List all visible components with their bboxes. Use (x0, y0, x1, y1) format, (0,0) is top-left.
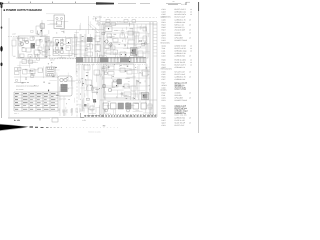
svg-text:R113: R113 (162, 64, 166, 67)
svg-text:UPC1185H: UPC1185H (175, 37, 184, 40)
svg-text:CARBON 4.7K: CARBON 4.7K (175, 19, 187, 22)
svg-text:C105: C105 (162, 13, 166, 16)
svg-text:CARBON 10K: CARBON 10K (175, 21, 187, 24)
svg-text:S101: S101 (162, 105, 166, 108)
svg-text:25: 25 (189, 55, 191, 58)
svg-text:METAL 0.22: METAL 0.22 (175, 24, 184, 27)
svg-text:R123: R123 (162, 110, 166, 113)
svg-text:SP OUT: SP OUT (62, 111, 67, 113)
svg-text:10: 10 (190, 47, 192, 50)
svg-text:Q107: Q107 (162, 122, 166, 125)
svg-text:FUSE 3A 125: FUSE 3A 125 (175, 119, 185, 122)
svg-text:D105: D105 (162, 71, 166, 74)
svg-text:Q101: Q101 (162, 32, 166, 35)
svg-text:R-CH: R-CH (117, 21, 121, 24)
svg-text:SLIDE SW 2P: SLIDE SW 2P (175, 61, 186, 64)
svg-text:F101: F101 (162, 94, 166, 97)
svg-text:MYLAR 0.047: MYLAR 0.047 (175, 71, 186, 74)
svg-text:R117: R117 (162, 82, 166, 85)
svg-text:2SC1815 (Y): 2SC1815 (Y) (175, 26, 185, 29)
svg-text:C121: C121 (162, 97, 166, 100)
svg-text:DC RANGE: DC RANGE (16, 89, 24, 91)
svg-text:25: 25 (189, 117, 191, 120)
svg-text:FUSE 3A 125V: FUSE 3A 125V (175, 59, 187, 62)
svg-text:25: 25 (189, 32, 191, 35)
svg-text:L=5V: L=5V (82, 119, 87, 122)
svg-text:R103: R103 (162, 24, 166, 27)
svg-text:C115: C115 (162, 73, 166, 76)
svg-text:10: 10 (190, 61, 192, 64)
svg-text:25: 25 (189, 92, 191, 95)
svg-text:R115: R115 (162, 76, 166, 79)
svg-text:MYLAR 0.047u: MYLAR 0.047u (175, 13, 187, 16)
svg-text:25: 25 (189, 76, 191, 79)
svg-text:CERAMIC 0.01: CERAMIC 0.01 (175, 10, 187, 13)
svg-text:C101: C101 (162, 124, 166, 127)
svg-text:10: 10 (190, 59, 192, 62)
svg-text:ELECT 100uF: ELECT 100uF (175, 73, 186, 76)
svg-text:CARBON 4.7K: CARBON 4.7K (175, 76, 187, 79)
svg-text:ELECT 100uF: ELECT 100uF (175, 15, 186, 18)
svg-text:CARBON 10K: CARBON 10K (175, 78, 187, 81)
svg-text:L-CH: L-CH (12, 33, 17, 36)
svg-text:CHOKE 3.3mH: CHOKE 3.3mH (175, 45, 187, 48)
svg-text:C117: C117 (162, 78, 166, 81)
svg-text:R109: R109 (162, 59, 166, 62)
svg-text:RD5.6EB: RD5.6EB (175, 94, 183, 97)
svg-text:CARBON 560: CARBON 560 (175, 55, 186, 58)
svg-text:C119: C119 (162, 87, 166, 90)
svg-text:25: 25 (189, 71, 191, 74)
svg-text:R111: R111 (162, 61, 166, 64)
svg-text:D103: D103 (162, 39, 166, 42)
svg-text:ELECT 47uF 5: ELECT 47uF 5 (175, 8, 186, 11)
svg-text:CERAMIC 100p: CERAMIC 100p (175, 50, 187, 53)
svg-text:1S1555: 1S1555 (175, 92, 181, 95)
svg-text:R121: R121 (162, 99, 166, 102)
svg-text:D107: D107 (162, 119, 166, 122)
svg-text:PRINTED IN JAPAN: PRINTED IN JAPAN (88, 132, 101, 134)
svg-text:CERAMIC 0.0: CERAMIC 0.0 (175, 66, 186, 69)
svg-text:IC101: IC101 (162, 45, 167, 48)
svg-text:ELECT 47uF 5: ELECT 47uF 5 (175, 64, 186, 67)
svg-text:ELECT 47uF: ELECT 47uF (175, 124, 185, 127)
svg-text:–9–: –9– (102, 124, 106, 127)
svg-text:25: 25 (189, 29, 191, 32)
svg-text:2SA1015 (GR: 2SA1015 (GR (175, 29, 186, 32)
svg-text:L101: L101 (162, 50, 166, 53)
svg-text:1S1555: 1S1555 (175, 32, 181, 35)
svg-text:B+ 45V: B+ 45V (14, 119, 21, 122)
svg-text:C113: C113 (162, 55, 166, 58)
svg-text:R107: R107 (162, 29, 166, 32)
svg-text:ELECT 1uF 50: ELECT 1uF 50 (175, 47, 186, 50)
svg-text:C103: C103 (162, 10, 166, 13)
svg-text:POWER TRANS: POWER TRANS (175, 99, 188, 102)
svg-text:25: 25 (189, 19, 191, 22)
svg-text:SLIDE SW 2P: SLIDE SW 2P (175, 122, 186, 125)
svg-text:MEASURED AT NO SIGNAL INPUT: MEASURED AT NO SIGNAL INPUT (16, 86, 39, 88)
svg-text:CARBON 2.2K: CARBON 2.2K (175, 52, 187, 55)
svg-text:C101: C101 (162, 8, 166, 11)
svg-text:R105: R105 (162, 26, 166, 29)
svg-text:Q105: Q105 (162, 66, 166, 69)
svg-text:25: 25 (189, 122, 191, 125)
svg-text:POWER TRANS: POWER TRANS (175, 39, 188, 42)
svg-text:25: 25 (189, 97, 191, 100)
svg-text:UNIT: V: UNIT: V (14, 113, 19, 115)
svg-text:10: 10 (190, 45, 192, 48)
svg-text:D101: D101 (162, 37, 166, 40)
svg-text:■ POWER OUTPUT DIAGRAM: ■ POWER OUTPUT DIAGRAM (3, 8, 42, 12)
svg-text:T101: T101 (162, 47, 166, 50)
svg-text:C109: C109 (162, 19, 166, 22)
svg-text:10: 10 (190, 8, 192, 11)
svg-text:RD5.6EB: RD5.6EB (175, 34, 183, 37)
svg-text:R119: R119 (162, 92, 166, 95)
svg-text:Q103: Q103 (162, 34, 166, 37)
svg-text:P.LIST: P.LIST (181, 3, 186, 6)
svg-text:C111: C111 (162, 52, 166, 55)
svg-text:UPC1185H: UPC1185H (175, 97, 184, 100)
svg-text:R101: R101 (162, 21, 166, 24)
svg-text:C125: C125 (162, 112, 166, 115)
svg-text:VR101: VR101 (162, 84, 167, 87)
svg-text:25: 25 (189, 24, 191, 27)
svg-text:HEAT SINK: HEAT SINK (59, 99, 66, 101)
svg-text:25: 25 (189, 37, 191, 40)
svg-text:CARBON 560: CARBON 560 (175, 117, 186, 120)
svg-text:R125: R125 (162, 117, 166, 120)
svg-text:C123: C123 (162, 107, 166, 110)
